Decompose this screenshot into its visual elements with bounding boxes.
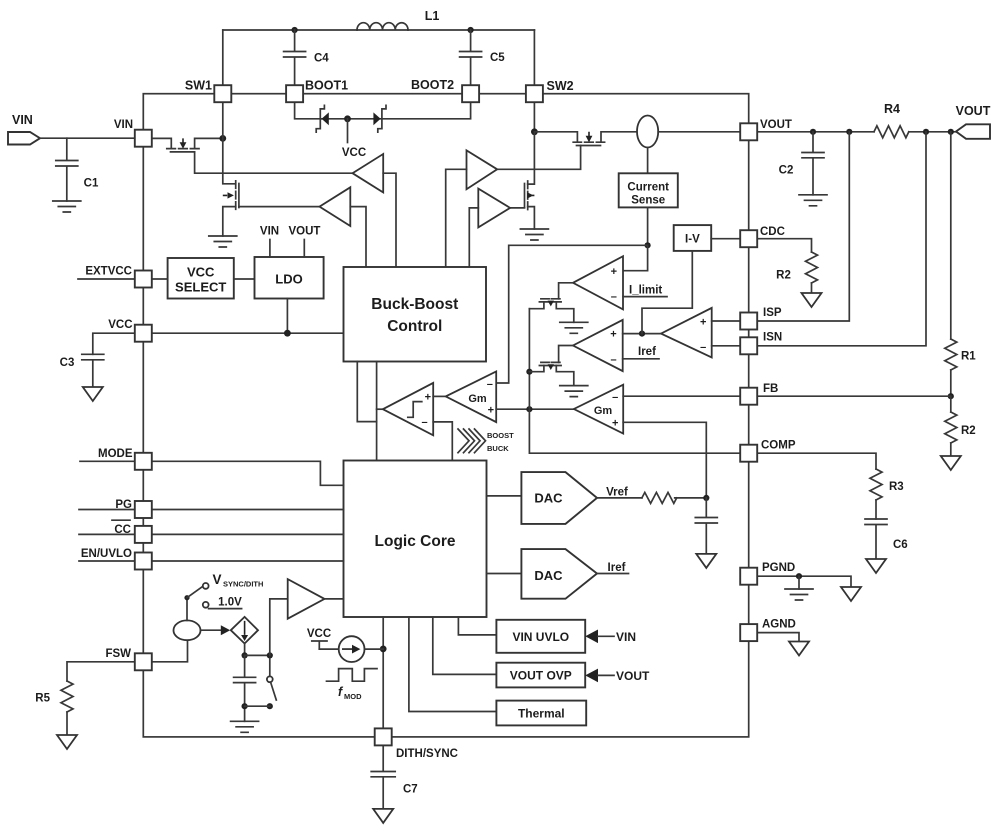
wire FB node to R2: [950, 396, 952, 412]
current source fMOD: [339, 636, 365, 662]
svg-text:CDC: CDC: [760, 226, 785, 238]
node C dither ground: [242, 703, 248, 709]
wire VOUT arrow stub: [598, 674, 614, 676]
transistor M2 gate bar: [238, 184, 240, 208]
svg-text:+: +: [612, 417, 618, 429]
svg-text:–: –: [700, 341, 706, 353]
source diamond arrow: [241, 621, 248, 641]
wire Iref plus node: [623, 333, 661, 335]
svg-text:VOUT: VOUT: [760, 119, 792, 131]
wire PG external stub: [79, 509, 135, 511]
transistor M1 arrow: [180, 138, 187, 148]
wire BuckBoost bottom stub A: [357, 362, 376, 422]
switch lever VSYNC: [187, 587, 203, 598]
wire M5 source to rail: [529, 302, 544, 309]
svg-text:Iref: Iref: [638, 346, 656, 358]
wire Logic Core to VIN UVLO: [458, 617, 496, 635]
transistor M2 arrow: [223, 192, 234, 198]
transistor M3 arrow: [527, 192, 534, 198]
svg-text:DAC: DAC: [534, 568, 563, 583]
ground C2: [799, 195, 827, 206]
transistor M5 channel: [539, 301, 561, 303]
driver U1 buck highside: [353, 154, 384, 192]
pin EXTVCC: [135, 271, 152, 288]
wire EN/UVLO internal: [152, 560, 343, 562]
wire comparator output: [377, 408, 383, 410]
svg-text:SW2: SW2: [547, 79, 574, 93]
wire Gm1 plus node: [496, 408, 574, 410]
switch contact 1.0V: [203, 602, 209, 608]
wire M1 gate line: [195, 152, 353, 173]
ground arrow C6: [866, 559, 886, 573]
box VOUT OVP: [496, 663, 585, 688]
svg-text:VCC: VCC: [307, 628, 331, 640]
wire SW2 node to M4: [534, 132, 577, 142]
wire R2 to ground arrow: [950, 443, 952, 456]
diode D2 cathode bar schottky: [378, 105, 386, 132]
wire M2 gate line: [239, 206, 320, 208]
label CC overline: [112, 519, 130, 521]
ground PGND earth: [785, 589, 813, 600]
pin VIN: [135, 130, 152, 147]
svg-text:DAC: DAC: [534, 491, 563, 506]
wire M6 source to rail: [529, 366, 544, 372]
wire driver U2 input: [350, 207, 366, 267]
pin FB: [740, 388, 757, 405]
wire I-V to Iref plus node: [642, 251, 692, 334]
driver U4 boost lowside: [478, 189, 510, 228]
svg-text:PGND: PGND: [762, 562, 795, 574]
svg-text:I-V: I-V: [685, 234, 700, 246]
svg-text:PG: PG: [115, 499, 132, 511]
ground arrow PGND: [841, 587, 861, 601]
box VCC SELECT: [168, 258, 234, 299]
node SW1 junction: [219, 135, 226, 142]
wire current sense to VOUT pin: [658, 131, 740, 133]
wire CC internal: [152, 533, 343, 535]
wire M3 gate line: [510, 207, 524, 209]
capacitor C5: [460, 30, 482, 85]
wire M3 source to ground: [528, 207, 535, 229]
wire M1 drain to SW1 node: [195, 138, 223, 148]
transistor M2 channel: [235, 181, 237, 210]
arrow VOUT into OVP: [585, 669, 598, 683]
wire ISN sense rail: [757, 132, 926, 346]
node dither bottom contact: [267, 703, 273, 709]
wire comparator minus input to Logic Core: [433, 422, 452, 461]
node ISP rail tap: [846, 129, 852, 135]
pin SW2: [526, 85, 543, 102]
wire FB external: [757, 395, 951, 397]
transistor M3 gate bar: [524, 184, 526, 208]
wire EN/UVLO external stub: [79, 560, 135, 562]
svg-text:MOD: MOD: [344, 692, 362, 701]
node R1 rail tap: [948, 129, 954, 135]
box VIN UVLO: [496, 620, 585, 653]
wire current sense output: [647, 207, 649, 245]
ground arrow C7: [373, 809, 393, 823]
node A dither: [242, 652, 248, 658]
IC boundary: [143, 94, 748, 737]
svg-text:AGND: AGND: [762, 619, 796, 631]
pin MODE: [135, 453, 152, 470]
wire VOUT output line: [757, 131, 874, 133]
wire R3 to C6: [875, 500, 877, 519]
op-amp Gm1 error amp: [446, 372, 497, 423]
node C2 tap: [810, 129, 816, 135]
transistor M6 channel: [539, 365, 561, 367]
pin FSW: [135, 653, 152, 670]
node PGND junction: [796, 573, 802, 579]
wire PGND to earth ground: [798, 576, 800, 589]
terminal VOUT output flag: [956, 124, 990, 139]
svg-text:R2: R2: [961, 425, 976, 437]
wire diamond to node A: [244, 644, 246, 656]
inductor L1: [357, 23, 408, 30]
svg-text:Control: Control: [387, 318, 442, 335]
diode D1 cathode bar schottky: [316, 105, 324, 132]
node fMOD junction: [380, 646, 387, 653]
wire Vref to filter: [597, 497, 642, 499]
wire PG internal: [152, 509, 343, 511]
svg-text:VOUT: VOUT: [616, 669, 650, 683]
ground M5: [560, 322, 588, 333]
op-amp I_limit: [573, 256, 623, 309]
svg-text:Current: Current: [627, 182, 669, 194]
wire 1.0V underline: [209, 608, 242, 610]
svg-text:BOOT1: BOOT1: [305, 79, 348, 93]
pin BOOT2: [462, 85, 479, 102]
wire I-V to CDC pin: [711, 238, 740, 240]
wire I_limit plus input: [623, 245, 648, 270]
resistor R2 CDC: [806, 252, 818, 283]
wire VCC SELECT to LDO: [234, 278, 255, 280]
svg-text:Logic Core: Logic Core: [375, 533, 456, 550]
svg-text:Sense: Sense: [631, 195, 665, 207]
transistor M4 channel: [573, 141, 604, 143]
wire fmod source to node: [365, 648, 384, 650]
pin BOOT1: [286, 85, 303, 102]
svg-text:Thermal: Thermal: [518, 707, 565, 721]
wire filter to Vref node: [675, 497, 707, 499]
svg-text:+: +: [425, 392, 431, 404]
wire mirror rail: [528, 309, 530, 410]
wire VOUT stub to LDO: [303, 240, 305, 258]
node current sense junction: [645, 242, 651, 248]
svg-text:ISN: ISN: [763, 332, 782, 344]
arrow VIN into UVLO: [585, 630, 598, 644]
pin AGND: [740, 624, 757, 641]
node FB divider junction: [948, 393, 954, 399]
wire M5 drain to ground: [556, 302, 574, 322]
pin COMP: [740, 445, 757, 462]
wire VIN input line: [40, 137, 135, 139]
svg-text:Gm: Gm: [594, 405, 613, 417]
wire FSW external: [67, 662, 135, 681]
svg-text:R4: R4: [884, 102, 900, 116]
svg-text:BUCK: BUCK: [487, 444, 509, 453]
wire ISP sense rail: [757, 132, 849, 321]
svg-text:COMP: COMP: [761, 440, 796, 452]
node C4 tap junction: [292, 27, 298, 33]
wire VCC stub from diode junction: [347, 119, 349, 143]
svg-text:C4: C4: [314, 53, 329, 65]
wire VIN pin to M1: [152, 138, 171, 148]
switch lever dither: [271, 682, 277, 700]
wire ISN internal: [712, 345, 741, 347]
svg-text:SYNC/DITH: SYNC/DITH: [223, 580, 263, 589]
svg-text:EXTVCC: EXTVCC: [85, 266, 132, 278]
transistor M4 arrow: [586, 132, 593, 143]
capacitor C7: [371, 745, 395, 809]
svg-text:SELECT: SELECT: [175, 280, 226, 295]
wire VCC rail to BuckBoost: [152, 332, 343, 334]
svg-text:–: –: [422, 417, 428, 429]
svg-text:C7: C7: [403, 784, 418, 796]
comparator U5 pwm: [383, 383, 433, 435]
node Vref junction: [703, 495, 709, 501]
diode D2: [373, 112, 380, 125]
svg-text:+: +: [610, 329, 616, 341]
wire R5 to ground arrow: [66, 712, 68, 735]
wire Iref minus stub: [623, 358, 659, 360]
svg-text:R3: R3: [889, 481, 904, 493]
node SW2 junction: [531, 128, 538, 135]
ground arrow AGND: [789, 642, 809, 656]
capacitor dither: [234, 655, 256, 721]
wire FSW to oscillator: [152, 640, 187, 662]
wire oscillator to switch pivot: [186, 598, 188, 621]
symbol fmod square wave: [327, 669, 378, 682]
wire top loop right vertical to SW2: [533, 30, 535, 85]
arrow into vsource: [221, 625, 230, 635]
capacitor C1: [56, 138, 78, 201]
svg-text:VCC: VCC: [108, 319, 132, 331]
svg-text:C6: C6: [893, 539, 908, 551]
ground C1: [53, 201, 81, 212]
svg-text:Vref: Vref: [606, 487, 628, 499]
svg-text:VIN: VIN: [260, 226, 279, 238]
node Gm1 plus junction: [526, 406, 532, 412]
wire M4 drain to current sense: [601, 132, 637, 142]
wire CDC external: [757, 239, 811, 252]
transistor M1 channel: [167, 148, 199, 150]
driver U3 boost highside: [467, 150, 498, 189]
ground arrow CDC: [802, 293, 822, 307]
op-amp Gm2 fb amp: [574, 385, 623, 434]
wire COMP external: [757, 453, 876, 469]
op-amp current sense amp: [661, 308, 712, 358]
svg-text:MODE: MODE: [98, 448, 133, 460]
ground M2: [209, 236, 237, 247]
driver U2 buck lowside: [320, 187, 351, 226]
symbol boost buck chevrons: [458, 429, 486, 453]
wire SW1 pin to M2 drain: [223, 102, 236, 184]
node B dither: [267, 652, 273, 658]
svg-text:R1: R1: [961, 351, 976, 363]
transistor M3 channel: [527, 181, 529, 210]
svg-text:VCC: VCC: [187, 265, 215, 280]
svg-text:FB: FB: [763, 383, 778, 395]
resistor R1: [945, 339, 957, 370]
ground arrow C3: [83, 387, 103, 401]
box I-V: [674, 225, 712, 251]
buffer sync: [288, 579, 325, 619]
node C5 tap junction: [468, 27, 474, 33]
svg-text:R2: R2: [776, 270, 791, 282]
transistor M6 arrow: [548, 364, 554, 370]
box Current Sense: [619, 173, 678, 207]
svg-text:BOOST: BOOST: [487, 431, 514, 440]
svg-text:I_limit: I_limit: [629, 285, 662, 297]
ground dither: [231, 721, 259, 732]
pin CDC: [740, 230, 757, 247]
wire Logic Core to DAC1: [487, 495, 522, 497]
svg-text:1.0V: 1.0V: [218, 597, 242, 609]
wire EXTVCC pin to VCC SELECT: [152, 278, 168, 280]
transistor M5 gate: [541, 298, 560, 300]
wire MODE internal: [152, 461, 343, 485]
wire Logic Core to VOUT OVP: [433, 617, 497, 674]
svg-text:L1: L1: [425, 9, 440, 23]
wire BOOT1 to BOOT2 diode rail: [295, 102, 471, 119]
box Thermal: [496, 701, 586, 726]
wire current sense stem: [647, 148, 649, 174]
capacitor C4: [284, 30, 306, 85]
current source fMOD arrow: [342, 645, 360, 654]
box Buck-Boost Control: [344, 267, 487, 362]
svg-text:–: –: [487, 378, 493, 390]
terminal VIN input flag: [8, 132, 40, 145]
svg-text:Buck-Boost: Buck-Boost: [371, 296, 458, 313]
box LDO: [255, 257, 324, 299]
pin VOUT: [740, 123, 757, 140]
svg-text:–: –: [610, 354, 616, 366]
wire VIN stub to LDO: [269, 240, 271, 258]
switch contact dither: [267, 676, 273, 682]
wire driver U3 input: [446, 169, 467, 267]
wire top horizontal right segment: [408, 29, 534, 31]
svg-text:+: +: [700, 316, 706, 328]
wire node A to node B: [245, 654, 270, 656]
capacitor C2: [802, 132, 824, 195]
resistor R3: [870, 469, 882, 500]
svg-text:BOOT2: BOOT2: [411, 78, 454, 92]
wire R1 to FB node: [950, 370, 952, 396]
svg-text:VCC: VCC: [342, 147, 366, 159]
svg-text:VIN: VIN: [616, 630, 636, 644]
inductor L1 baseline: [357, 29, 408, 31]
wire VIN arrow stub: [598, 635, 614, 637]
ground arrow Vref filter: [696, 554, 716, 568]
wire Iref stub: [597, 573, 629, 575]
wire COMP internal: [529, 409, 740, 453]
capacitor C3: [82, 354, 104, 387]
wire contact to ground node: [245, 705, 270, 707]
wire AGND external: [757, 633, 799, 642]
wire EXTVCC external stub: [78, 278, 135, 280]
wire I_limit output to M5 gate: [559, 283, 573, 299]
svg-text:C2: C2: [779, 165, 794, 177]
wire VCC pin to C3: [93, 333, 135, 354]
svg-text:+: +: [611, 266, 617, 278]
svg-text:R5: R5: [35, 693, 50, 705]
box Logic Core: [344, 461, 487, 618]
wire buffer to Logic Core: [325, 598, 344, 600]
wire Iref output to M6 gate: [559, 346, 573, 363]
wire driver U4 input: [469, 208, 478, 267]
wire top horizontal left segment: [223, 29, 357, 31]
ground arrow R5: [57, 735, 77, 749]
wire Gm2 plus to Vref node: [623, 422, 706, 498]
wire MODE external stub: [80, 460, 135, 462]
svg-text:Gm: Gm: [468, 393, 487, 405]
node Iref plus junction: [639, 331, 645, 337]
wire node B to switch contact: [269, 659, 271, 677]
svg-text:C5: C5: [490, 52, 505, 64]
svg-text:LDO: LDO: [275, 272, 302, 287]
node VCC diode junction: [344, 115, 351, 122]
svg-text:SW1: SW1: [185, 79, 212, 93]
diode D1: [322, 112, 329, 125]
wire M6 drain to ground: [556, 366, 574, 386]
switch contact VSYNC: [203, 583, 209, 589]
pin ISN: [740, 337, 757, 354]
ground M6: [560, 386, 588, 397]
wire R1 rail upper: [950, 132, 952, 339]
dac DAC1 Vref: [521, 472, 597, 524]
wire oscillator to vsource arrow: [201, 629, 225, 631]
node mirror rail junction: [526, 369, 532, 375]
pin PG: [135, 501, 152, 518]
svg-text:FSW: FSW: [105, 648, 131, 660]
pin ISP: [740, 313, 757, 330]
resistor Vref filter: [642, 492, 677, 503]
svg-text:VIN: VIN: [114, 119, 133, 131]
resistor R4: [874, 126, 909, 138]
pin CC: [135, 526, 152, 543]
wire driver U1 input: [383, 173, 396, 267]
node ISN rail tap: [923, 129, 929, 135]
wire SW2 pin to node: [533, 102, 535, 132]
svg-text:–: –: [611, 291, 617, 303]
capacitor Vref filter: [695, 498, 717, 554]
dac DAC2 Iref: [521, 549, 597, 599]
wire I_limit minus stub: [623, 296, 667, 298]
resistor R5: [61, 681, 73, 712]
svg-text:V: V: [213, 572, 222, 587]
wire FB internal: [623, 395, 740, 397]
wire SW2 node to M3 drain: [528, 132, 535, 184]
wire M2 source to ground: [223, 207, 236, 236]
svg-text:VIN: VIN: [12, 113, 33, 127]
pin PGND: [740, 568, 757, 585]
transistor M1 gate bar: [171, 151, 195, 153]
svg-text:C3: C3: [60, 357, 75, 369]
wire Logic Core to DITH node: [382, 617, 384, 728]
svg-text:+: +: [488, 404, 494, 416]
wire current sense to error amp: [496, 245, 647, 383]
wire node B to buffer input: [270, 599, 288, 656]
svg-text:VOUT OVP: VOUT OVP: [510, 669, 572, 683]
transistor M5 arrow: [548, 301, 554, 307]
pin VCC: [135, 325, 152, 342]
ground arrow R2 divider: [941, 456, 961, 470]
wire LDO output: [286, 299, 288, 334]
svg-text:DITH/SYNC: DITH/SYNC: [396, 748, 458, 760]
wire comparator plus input: [433, 395, 446, 397]
wire Logic Core to Thermal: [409, 617, 497, 712]
